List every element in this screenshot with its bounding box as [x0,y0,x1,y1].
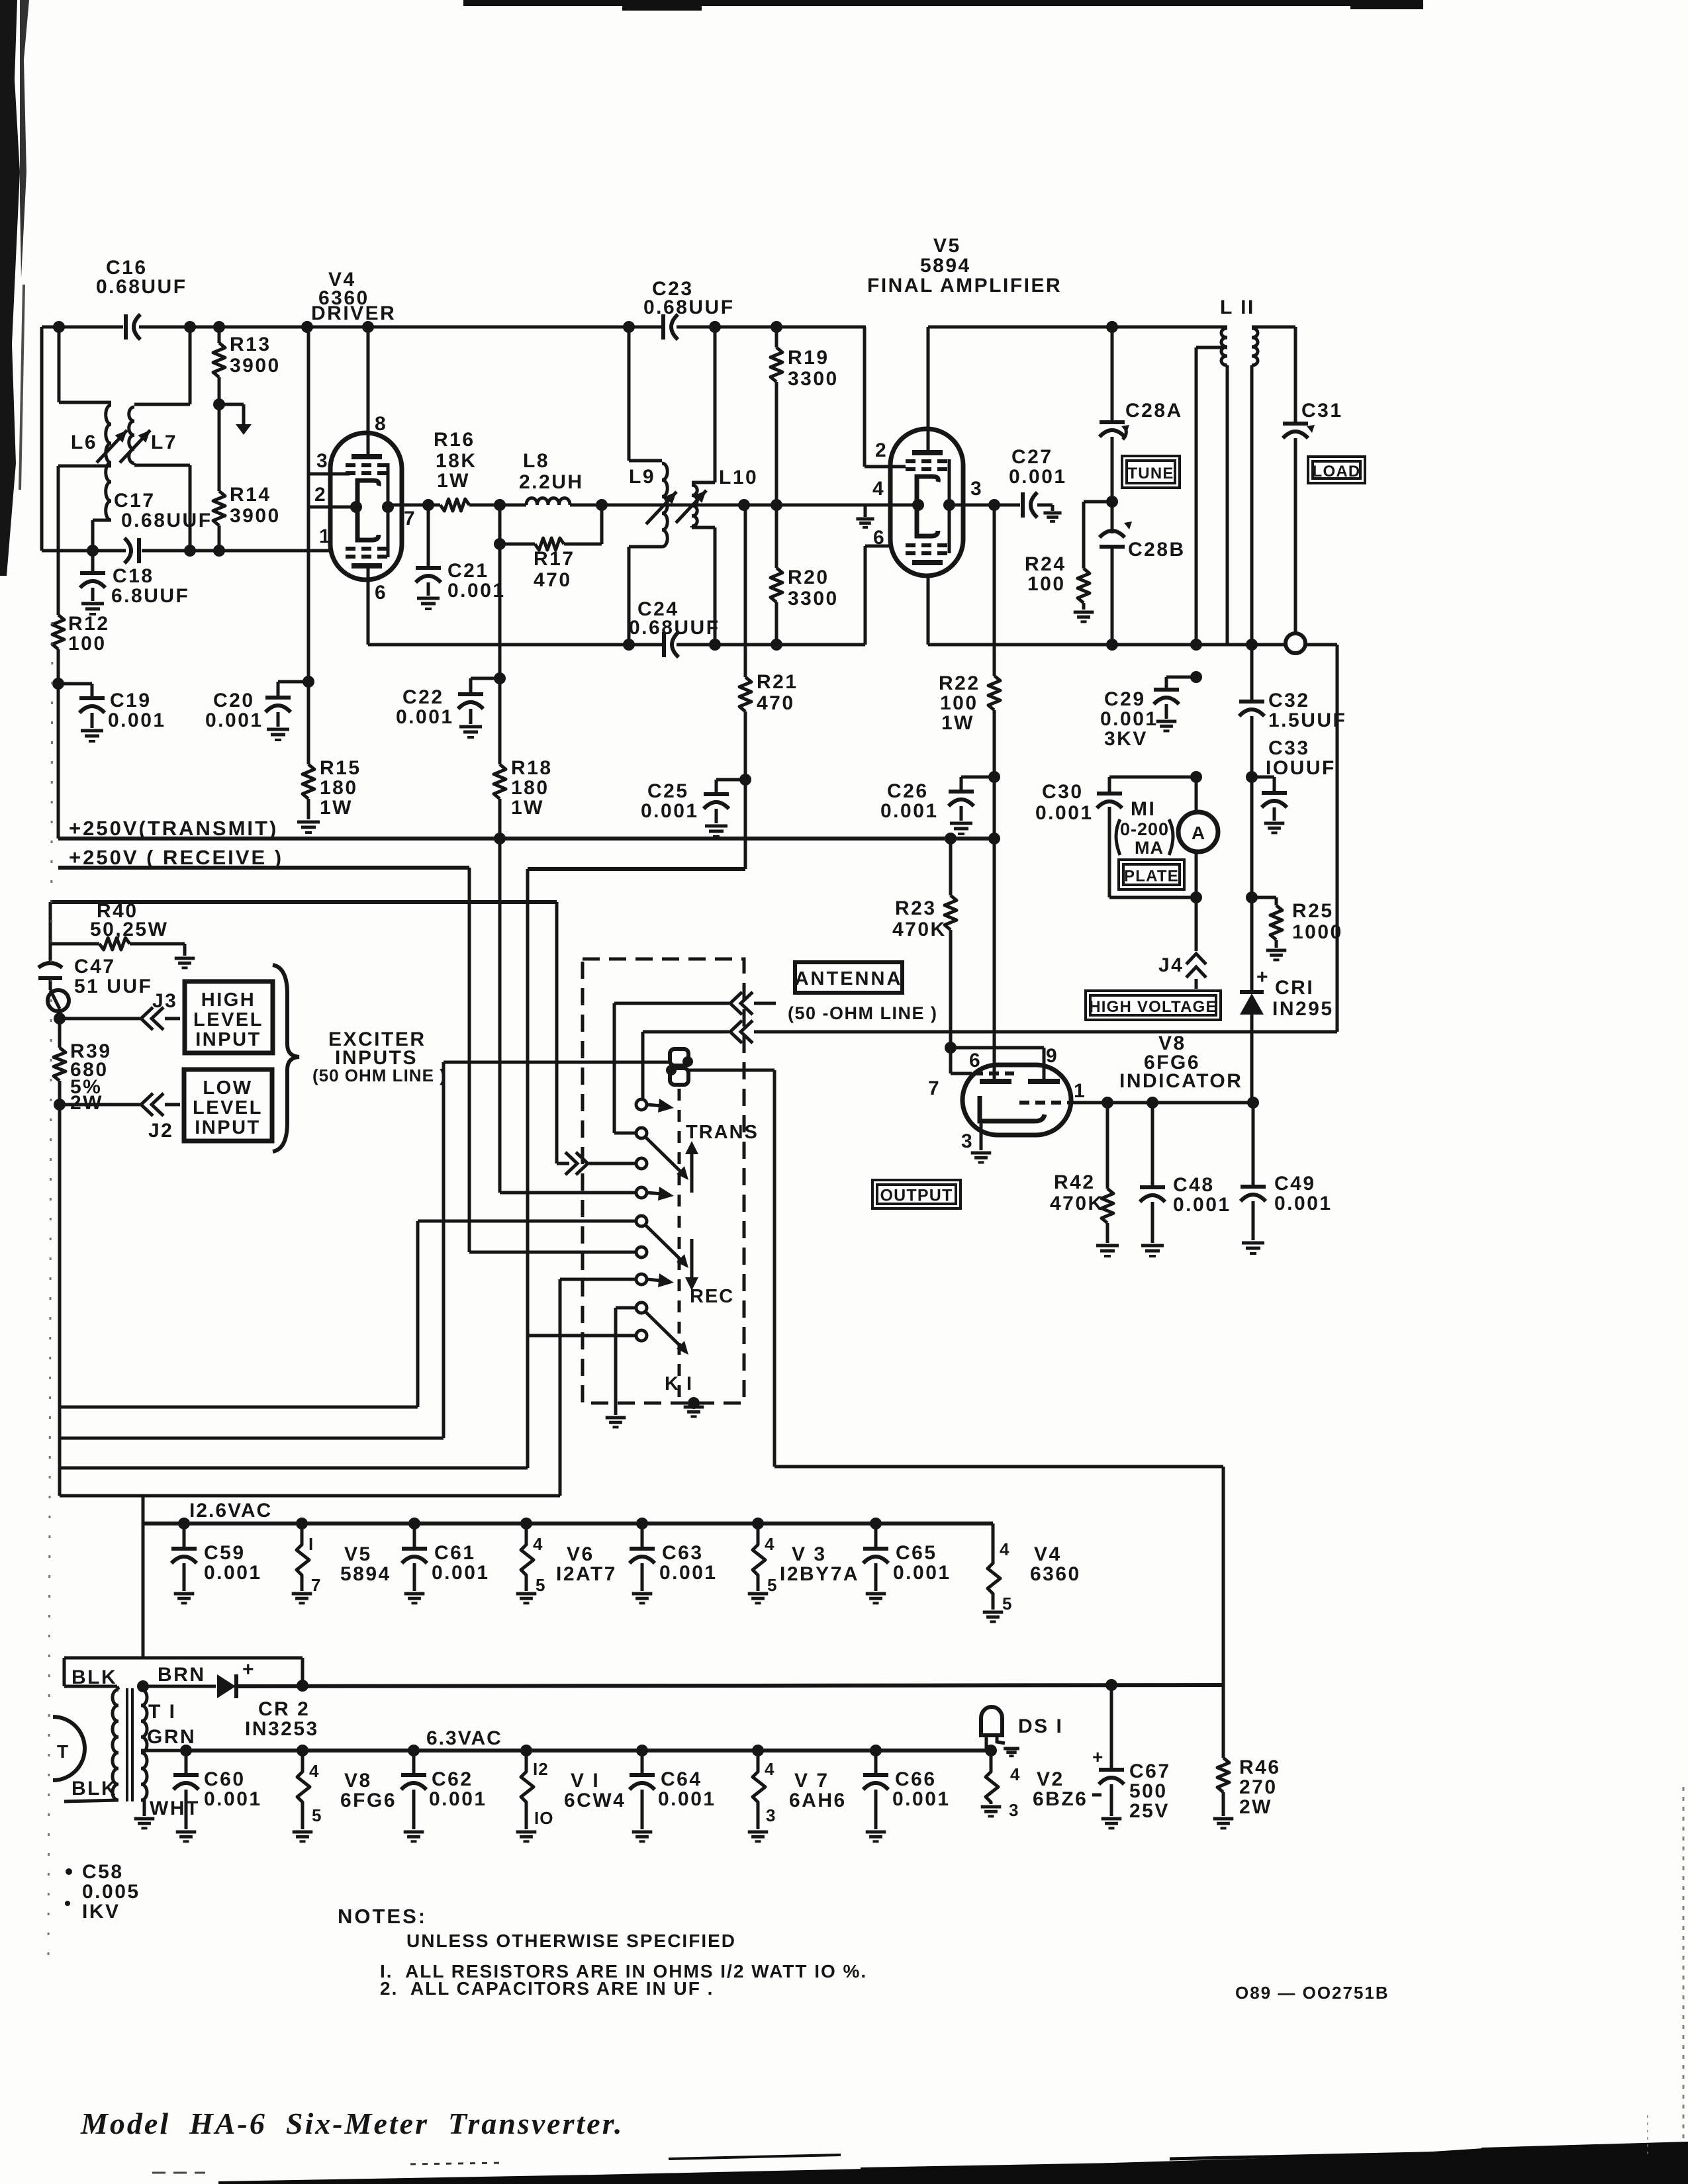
capacitor C24 [662,632,666,657]
wire J4 lead [1195,897,1198,951]
wire relay linkage dashed [678,1089,681,1403]
svg-text:R12: R12 [68,613,110,635]
svg-text:+: + [1092,1747,1103,1767]
svg-text:0.68UUF: 0.68UUF [96,276,187,298]
tube V5 cathode [917,477,938,536]
tube V8 envelope [962,1065,1071,1135]
capacitor C67 [1099,1768,1124,1772]
svg-text:J4: J4 [1158,954,1184,976]
svg-text:V 3: V 3 [792,1543,827,1565]
svg-text:50,25W: 50,25W [90,919,168,940]
wire J2 line [60,1103,140,1107]
wire L7 top feed [189,327,192,404]
wire grid row y832 [42,549,126,553]
tube V4 envelope [330,433,402,580]
wire 12.6 bus [143,1522,993,1525]
ground heater V8f [293,1831,313,1834]
svg-text:L7: L7 [151,432,177,453]
svg-text:3300: 3300 [788,368,839,390]
svg-text:Model HA-6 Six-Meter Transv: Model HA-6 Six-Meter Transverter. [80,2107,624,2140]
ground C63 [632,1592,653,1596]
svg-text:1W: 1W [320,797,353,819]
svg-text:R18: R18 [511,757,553,779]
arrow L10 variable [676,490,706,523]
svg-text:0-200: 0-200 [1120,819,1169,839]
tube V8 grid dashes upper [973,1071,983,1075]
svg-text:2: 2 [875,439,888,461]
arrow L9 variable [646,492,677,524]
svg-text:C28B: C28B [1128,539,1186,561]
wire primary bottom lead [64,1800,118,1801]
svg-text:CRI: CRI [1275,977,1314,999]
svg-text:3: 3 [961,1130,974,1152]
wire pin4 ground stub [864,505,867,517]
svg-text:BLK: BLK [71,1666,117,1688]
wire CR2 output line [236,1685,1225,1686]
wire secondary top [141,1686,143,1690]
connector J4 [1186,954,1206,964]
connector antenna chevron 2 [730,1021,742,1043]
node C29 junction [1190,671,1202,683]
wire bottom bus right [927,576,930,645]
svg-text:5: 5 [1002,1594,1012,1614]
transformer T1 secondary coil [141,1690,147,1800]
svg-text:C30: C30 [1042,781,1084,803]
wire 6.3 bus [186,1749,991,1752]
wire left edge drop [40,327,44,551]
capacitor C49 [1252,1103,1255,1185]
svg-text:I2.6VAC: I2.6VAC [189,1500,272,1522]
ground heater V3 [748,1592,769,1596]
svg-text:1W: 1W [437,470,470,492]
wire C67 column [1110,1685,1113,1768]
svg-text:IN295: IN295 [1272,998,1334,1020]
tube V5 top plate bar [912,450,943,455]
wire to J3 node [50,990,60,1009]
svg-text:R22: R22 [939,672,980,694]
wire contact1 up-feed [641,1062,645,1100]
svg-text:0.68UUF: 0.68UUF [643,296,735,318]
svg-text:DS I: DS I [1018,1715,1063,1737]
capacitor C19 [91,684,94,697]
svg-text:V6: V6 [567,1543,594,1565]
svg-text:0.001: 0.001 [205,709,263,731]
svg-text:7: 7 [311,1575,321,1595]
ground C20 [267,728,289,731]
resistor R12 [57,466,60,615]
svg-text:0.001: 0.001 [1009,466,1067,488]
svg-text:0.001: 0.001 [204,1788,262,1810]
node C22 junction [494,672,506,684]
node bottom bus right dots [1106,639,1118,651]
node R16-L8 junction [494,499,506,511]
node pin1 dots [1102,1097,1113,1109]
svg-text:BRN: BRN [158,1664,206,1686]
capacitor C25 [715,780,718,793]
tube V5 plate lead [927,327,930,453]
wire antenna2 riser [1336,645,1339,1032]
svg-text:4: 4 [533,1534,543,1554]
svg-text:WHT: WHT [150,1797,200,1819]
wire L9 bottom [629,545,662,549]
svg-text:L6: L6 [71,432,97,453]
inductor L7 [129,407,134,463]
wire J3 line [60,1017,140,1021]
wire pin9 feed [951,1046,1044,1050]
svg-text:7: 7 [404,508,416,529]
capacitor C48 [1151,1103,1154,1186]
wire receive right segment [528,867,745,871]
svg-text:R16: R16 [434,429,475,451]
svg-text:C65: C65 [896,1542,937,1564]
wire R25 branch [1252,896,1276,899]
svg-text:0.68UUF: 0.68UUF [121,510,212,531]
ground R40 [175,957,195,960]
heater V3 [753,1524,765,1591]
node J3 junction [54,1013,66,1024]
svg-text:1W: 1W [941,712,974,734]
ground C60 [176,1831,197,1834]
resistor R42 [1106,1103,1109,1189]
ground C29 [1156,720,1177,723]
svg-text:18K: 18K [436,450,477,472]
svg-text:(50 OHM LINE ): (50 OHM LINE ) [312,1066,446,1085]
node R25 junction [1246,891,1258,903]
contact circle 2 wiper [636,1128,647,1138]
wire CR1 upper [1250,897,1254,992]
heater V1 [521,1751,534,1829]
wire +250V transmit bus [58,837,994,841]
svg-text:IOUUF: IOUUF [1266,757,1336,779]
ground C67 [1102,1817,1122,1821]
wire V5 pin3 lead [949,504,994,507]
ground heater V2 [981,1805,1002,1809]
wire C26 branch [961,776,994,779]
resistor R19 [775,327,778,347]
capacitor C32 [1250,645,1254,700]
node bottom bus dots [623,639,635,651]
svg-text:2. ALL CAPACITORS ARE IN UF .: 2. ALL CAPACITORS ARE IN UF . [380,1978,714,1999]
arrow C28A variable [1123,428,1126,439]
resistor R39 [58,1019,62,1048]
wire transmit riser to relay [498,839,502,1193]
node C28 mid junction [1106,496,1118,508]
wire exciter bus riser [555,902,559,1163]
svg-text:0.001: 0.001 [892,1788,951,1810]
svg-text:0.001: 0.001 [658,1788,716,1810]
svg-text:470K: 470K [1050,1193,1104,1214]
ground C49 [1242,1242,1264,1245]
contact circle 7 [636,1274,647,1285]
wire chevron line to relay [557,1162,569,1165]
wire C25 branch [716,778,745,782]
svg-text:O89 — OO2751B: O89 — OO2751B [1235,1983,1389,2003]
svg-text:LEVEL: LEVEL [193,1009,263,1030]
tube V4 upper grid dashes [346,463,355,467]
svg-text:0.001: 0.001 [1274,1193,1333,1214]
node pin7 node [422,499,434,511]
artifact left margin streaks [0,0,20,576]
tube V4 bottom plate bar [352,563,382,569]
heater V7 [753,1751,765,1829]
wire C20 branch [278,680,308,684]
svg-text:C67: C67 [1129,1760,1171,1782]
wire antenna line 2 right [754,1030,1337,1034]
resistor R16 [440,499,469,511]
arrow contact 1 [647,1105,662,1106]
svg-text:0.001: 0.001 [1100,708,1158,730]
wire exciter bus left drop [49,902,52,944]
svg-text:DRIVER: DRIVER [311,302,396,324]
capacitor C33 [1262,791,1287,795]
node pin3 junction [988,499,1000,511]
resistor R17 [535,538,564,550]
tube V5 inner rail [948,459,951,553]
svg-text:R20: R20 [788,567,829,588]
ground C22 [459,725,482,729]
node relay box bottom [688,1397,700,1409]
resistor R21 [744,505,747,677]
resistor R23 [949,839,953,895]
svg-text:I2AT7: I2AT7 [556,1563,617,1585]
svg-text:R17: R17 [534,548,575,570]
wire CR1 lower [1250,1015,1254,1103]
svg-text:1000: 1000 [1292,921,1343,943]
svg-text:J2: J2 [148,1120,173,1142]
wire primary top lead [117,1686,118,1690]
svg-text:ANTENNA: ANTENNA [795,968,903,989]
resistor R40 [99,938,130,950]
svg-text:6CW4: 6CW4 [564,1790,626,1811]
connector exciter chevron [576,1152,588,1175]
tube V5 upper grid dashes [906,459,915,463]
svg-text:470K: 470K [892,919,947,940]
node V5 internal dots [912,499,924,511]
svg-text:L10: L10 [719,467,758,488]
svg-text:8: 8 [375,413,387,435]
wire transformer upper loop [64,1657,303,1660]
wire V5 pin6 riser [864,546,867,645]
svg-text:0.001: 0.001 [1035,802,1094,824]
arrow REC down [690,1239,694,1280]
svg-text:6FG6: 6FG6 [340,1790,397,1811]
svg-text:LOW: LOW [203,1077,252,1099]
wire C19 branch [58,682,92,686]
svg-text:T: T [57,1741,68,1762]
svg-text:C59: C59 [204,1542,246,1564]
wire L6 top feed [58,327,61,402]
svg-text:R25: R25 [1292,900,1334,922]
wire V5 pin4 lead [865,504,918,507]
ground C65 [866,1592,886,1596]
svg-text:V5: V5 [933,235,961,257]
resistor R15 [307,682,310,764]
svg-text:C27: C27 [1011,446,1053,468]
node meter loop dots [1190,771,1202,783]
tube V8 plate bars [980,1079,1011,1084]
wire R16 to L8 [469,504,526,507]
capacitor C31 [1283,422,1308,426]
node transmit bus dots [494,833,506,844]
svg-text:470: 470 [757,692,795,714]
wire staircase2 riser [442,1062,445,1438]
wire L10 bottom [690,526,694,527]
svg-text:1.5UUF: 1.5UUF [1268,709,1346,731]
wire staircase4 riser [559,1279,562,1496]
connector J3 chevron [141,1007,153,1030]
diode CR2 [217,1674,236,1698]
wire +250V receive bus [58,866,469,870]
wire staircase1 riser [416,1221,420,1407]
capacitor C28A chain top [1111,327,1114,421]
resistor R24 [1078,569,1090,603]
svg-text:0.001: 0.001 [641,800,699,822]
svg-text:V 7: V 7 [794,1770,829,1792]
resistor R20 [775,505,778,568]
wire L11 secondary bottom [1250,365,1254,645]
svg-text:4: 4 [309,1761,319,1781]
svg-text:C28A: C28A [1125,400,1183,422]
svg-text:CR 2: CR 2 [258,1698,310,1720]
svg-text:C31: C31 [1301,400,1343,422]
svg-text:5: 5 [312,1805,322,1825]
node CR2 line start [137,1680,149,1692]
inductor L8 [526,498,570,506]
wire L11 primary bottom [1226,365,1229,645]
wire pin7 feed [949,1048,953,1073]
svg-text:J3: J3 [152,990,177,1012]
svg-text:IN3253: IN3253 [245,1718,319,1740]
svg-text:INPUT: INPUT [195,1117,261,1138]
tube V4 bottom lead pin 6 [367,566,370,645]
node L8 out [596,499,608,511]
svg-text:V I: V I [571,1770,600,1792]
mark C58 specks [66,1868,72,1875]
wire L11 tap [1196,346,1227,349]
tube V5 lower grid dashes [906,543,915,547]
svg-text:PLATE: PLATE [1124,868,1179,886]
ground C27 [1043,512,1061,515]
svg-text:0.001: 0.001 [432,1562,490,1584]
svg-text:0.001: 0.001 [108,709,166,731]
wire R46 column [1222,1685,1225,1758]
ground C25 [705,825,727,828]
svg-text:C49: C49 [1274,1173,1316,1195]
svg-text:I2: I2 [533,1759,549,1779]
wire L6 bottom to C18 node [93,519,111,522]
capacitor C60 [185,1751,188,1774]
brace exciter inputs [273,965,299,1152]
capacitor C23 [661,314,665,340]
svg-text:R13: R13 [230,334,271,355]
wire antenna1 to wiper [613,1003,616,1133]
node grid row dots [87,545,99,557]
svg-text:V8: V8 [344,1770,372,1792]
wire V8 pin1 line [1067,1101,1253,1105]
tube V4 top plate bar [352,454,382,459]
heater V8f [297,1751,310,1829]
svg-text:C33: C33 [1268,737,1310,759]
box ANTENNA [795,962,902,993]
svg-text:TUNE: TUNE [1127,465,1174,482]
heater V5 [297,1524,309,1591]
svg-text:4: 4 [872,478,885,500]
svg-text:+: + [1256,966,1268,988]
box TUNE [1122,456,1180,488]
ground C61 [404,1592,425,1596]
node R13 bottom [213,398,225,410]
ground V8 pin3 [971,1152,992,1155]
svg-text:LOAD: LOAD [1313,463,1361,480]
ground arrow R13 stub [236,424,252,435]
tube V8 grid dashes lower [1019,1101,1029,1105]
svg-text:L II: L II [1220,296,1255,318]
ground C59 [174,1592,195,1596]
svg-text:K I: K I [665,1373,693,1394]
svg-text:C66: C66 [895,1768,937,1790]
svg-text:C32: C32 [1268,690,1310,711]
box LOAD [1308,457,1365,483]
node CR2 line dots [297,1680,308,1692]
svg-text:C26: C26 [887,780,929,802]
svg-text:C25: C25 [647,780,689,802]
svg-text:0.001: 0.001 [204,1562,262,1584]
box HIGH LEVEL INPUT [185,981,273,1053]
meter parens [1116,819,1120,855]
svg-text:UNLESS OTHERWISE SPECIFIED: UNLESS OTHERWISE SPECIFIED [406,1931,736,1951]
ground C21 [417,597,440,600]
wire staircase line 1 [60,1406,418,1409]
wire mid row to V5 [665,504,890,507]
transformer T1 primary coil [113,1690,118,1800]
wire C22 branch [471,677,500,680]
tube V5 envelope [890,429,963,576]
box PLATE [1119,860,1184,889]
capacitor C62 [412,1751,416,1774]
capacitor C59 [183,1524,186,1547]
box OUTPUT [872,1180,961,1208]
ground heater V6 [516,1592,537,1596]
node top bus right dot [1106,321,1118,333]
svg-text:R46: R46 [1239,1756,1281,1778]
wire antenna stub 1 [754,1002,776,1005]
node C20 junction [303,676,314,688]
node C19 junction [52,678,64,690]
switch arm pole2 [645,1225,682,1261]
wire antenna line 1 [614,1002,729,1005]
capacitor C21 [427,505,430,567]
svg-text:470: 470 [534,569,572,591]
svg-text:7: 7 [928,1077,941,1099]
svg-text:C62: C62 [432,1768,473,1790]
svg-text:1: 1 [1074,1080,1086,1102]
arrow L6 variable [97,430,127,463]
wire R40 to ground [130,942,185,946]
wire left rail to transmit bus [57,684,60,839]
svg-text:4: 4 [765,1759,774,1779]
svg-text:3: 3 [1009,1800,1019,1820]
svg-text:3900: 3900 [230,505,281,527]
svg-text:2.2UH: 2.2UH [519,471,584,493]
svg-text:4: 4 [1000,1539,1009,1559]
svg-text:IO: IO [534,1808,553,1828]
node R17 left [494,538,506,550]
wire R40 lead [50,942,99,946]
ground pin4 V5 [856,518,874,521]
artifact bottom wedge [218,2143,1688,2184]
contact circle 5 wiper [636,1216,647,1226]
svg-text:6: 6 [969,1050,982,1071]
